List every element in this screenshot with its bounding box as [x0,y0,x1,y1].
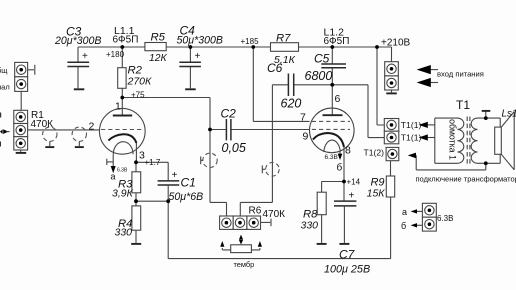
svg-text:Т1(1): Т1(1) [401,133,422,143]
svg-text:С7: С7 [339,248,356,262]
svg-text:С6: С6 [267,61,283,75]
svg-text:С5: С5 [314,52,330,66]
svg-text:а: а [111,172,116,182]
svg-text:7: 7 [300,112,306,124]
svg-text:Т1(1): Т1(1) [401,120,422,130]
svg-text:50μ*6В: 50μ*6В [169,191,204,203]
svg-text:+1.7: +1.7 [145,158,161,167]
svg-text:20μ*300В: 20μ*300В [54,35,101,47]
svg-text:+210В: +210В [381,38,411,49]
svg-text:6.3В: 6.3В [117,168,128,174]
svg-text:6: 6 [335,93,341,105]
svg-text:б: б [401,221,406,231]
svg-text:50μ*300В: 50μ*300В [177,35,223,47]
svg-text:1: 1 [115,101,121,113]
svg-text:Т1(2): Т1(2) [363,148,384,158]
svg-text:нал: нал [0,83,10,92]
svg-text:а: а [402,207,407,217]
svg-text:С1: С1 [181,176,196,190]
svg-text:+: + [82,51,88,62]
svg-text:вход питания: вход питания [437,70,484,79]
svg-text:+75: +75 [131,91,145,100]
svg-text:R5: R5 [151,32,166,44]
svg-text:330: 330 [301,220,319,232]
svg-text:С2: С2 [221,107,237,121]
svg-text:+: + [195,51,201,62]
svg-text:3: 3 [139,150,145,162]
svg-text:6.3В: 6.3В [325,154,338,161]
svg-text:бщ: бщ [0,66,7,75]
svg-text:+: + [349,191,355,202]
svg-text:0,05: 0,05 [222,141,246,155]
svg-text:270К: 270К [127,76,153,88]
svg-text:470К: 470К [263,209,286,220]
svg-text:+185: +185 [241,37,260,46]
svg-text:6800: 6800 [305,69,333,83]
svg-text:подключение трансформатора: подключение трансформатора [416,175,516,184]
svg-text:6.3В: 6.3В [437,214,453,223]
svg-text:R7: R7 [276,33,291,45]
svg-text:6Ф5П: 6Ф5П [113,35,139,46]
svg-text:б: б [337,162,343,174]
svg-text:15К: 15К [367,188,386,200]
svg-text:+14: +14 [347,178,361,187]
svg-text:470К: 470К [31,119,54,130]
svg-text:9: 9 [303,131,309,143]
svg-text:2: 2 [89,121,95,133]
svg-text:620: 620 [281,97,302,111]
svg-text:тембр: тембр [234,260,255,269]
svg-text:+180: +180 [106,50,125,59]
svg-text:+: + [172,170,178,181]
svg-text:Т1: Т1 [456,98,470,112]
svg-text:R6: R6 [249,206,262,217]
svg-text:обмотка 1: обмотка 1 [447,119,457,160]
svg-text:8: 8 [345,145,351,157]
svg-text:6Ф5П: 6Ф5П [324,36,350,47]
svg-text:3,9К: 3,9К [112,188,134,200]
svg-text:Ls1: Ls1 [502,109,516,120]
svg-text:100μ 25В: 100μ 25В [324,264,370,276]
svg-text:330: 330 [115,227,133,239]
svg-text:12К: 12К [149,53,167,64]
